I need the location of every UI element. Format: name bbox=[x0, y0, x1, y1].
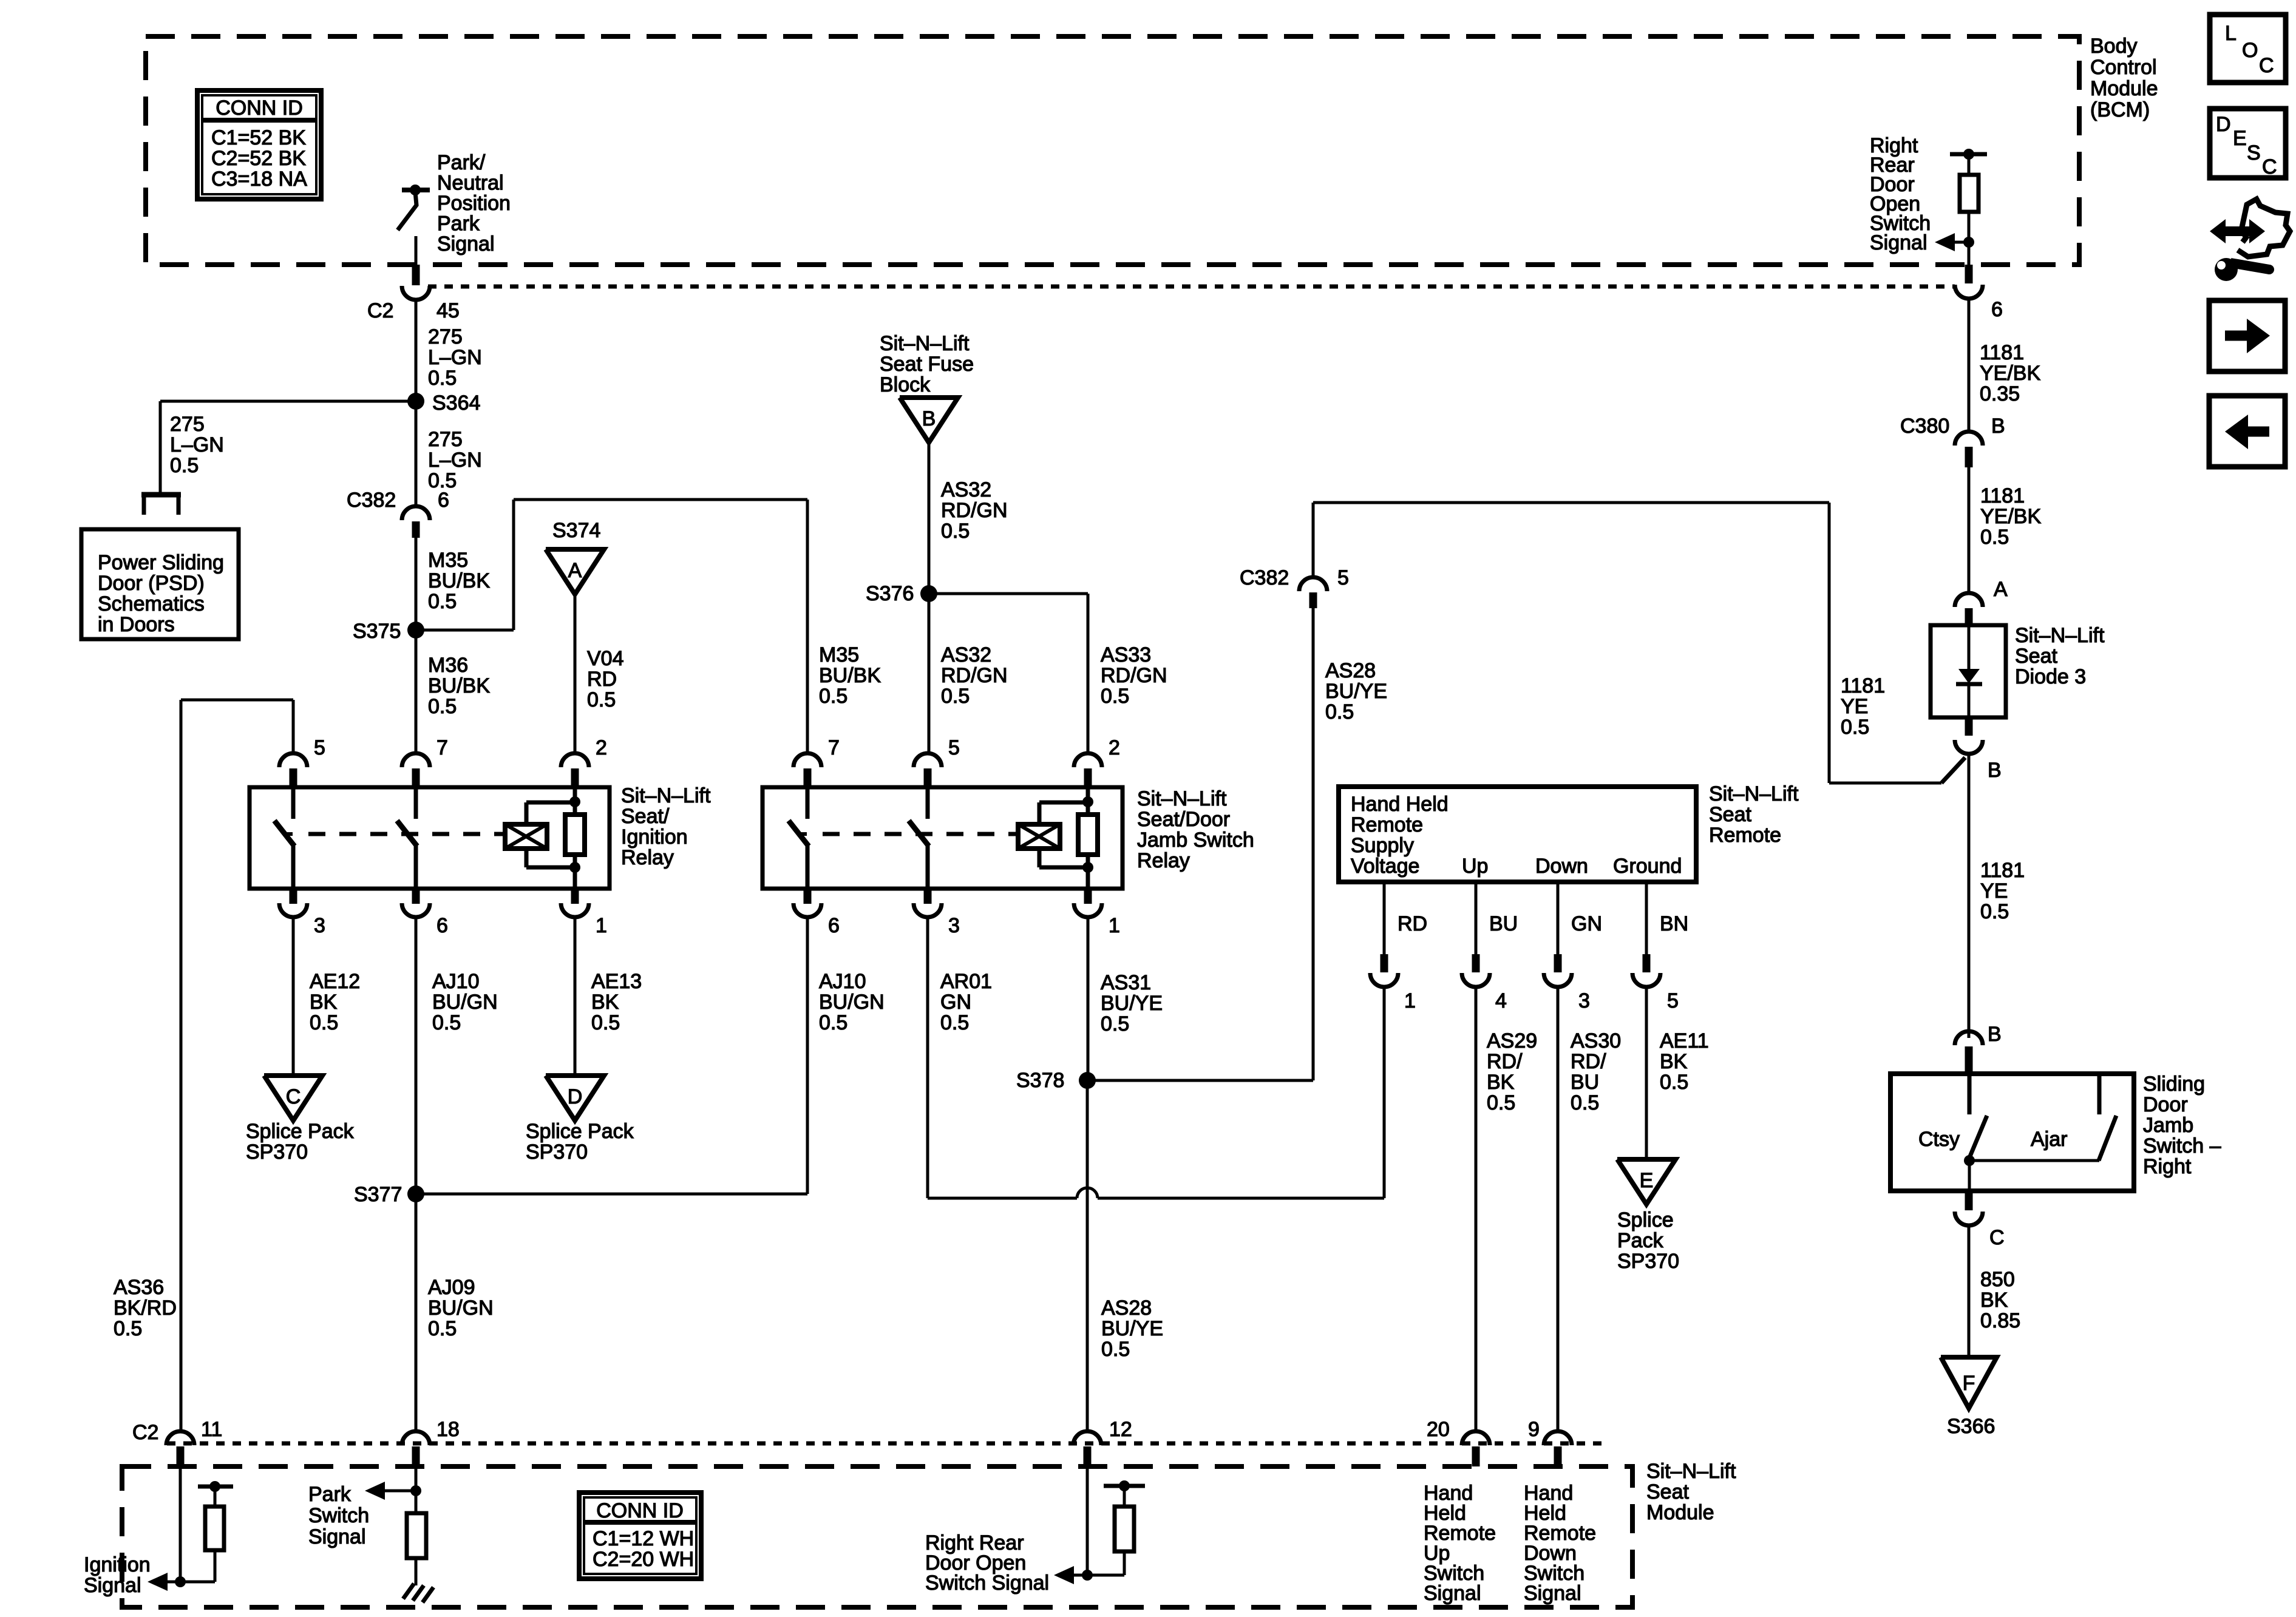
svg-text:BN: BN bbox=[1660, 912, 1688, 935]
wire 275 L-GN 0.5 (C2-45 to S364) bbox=[415, 300, 418, 401]
svg-text:Signal: Signal bbox=[1870, 231, 1927, 254]
wire - pin 11 to ignition signal bbox=[179, 1466, 182, 1582]
svg-text:0.5: 0.5 bbox=[819, 1011, 847, 1034]
connector seat module pin 20 bbox=[1427, 1418, 1490, 1466]
connector relay K1 pin 3 (bottom) bbox=[279, 889, 325, 937]
svg-text:L–GN: L–GN bbox=[170, 433, 224, 456]
svg-text:A: A bbox=[568, 559, 582, 582]
svg-text:B: B bbox=[1991, 415, 2005, 438]
svg-text:S: S bbox=[2247, 141, 2261, 164]
svg-text:Ignition: Ignition bbox=[84, 1553, 151, 1576]
svg-text:AS33: AS33 bbox=[1101, 643, 1151, 666]
svg-text:CONN ID: CONN ID bbox=[596, 1499, 684, 1522]
svg-text:M35: M35 bbox=[428, 549, 468, 572]
svg-text:2: 2 bbox=[596, 736, 607, 759]
splice S364 bbox=[407, 393, 424, 410]
svg-text:1181: 1181 bbox=[1980, 341, 2024, 364]
svg-text:Sit–N–Lift: Sit–N–Lift bbox=[1709, 782, 1799, 805]
svg-text:AS28: AS28 bbox=[1101, 1297, 1152, 1320]
svg-text:BU/BK: BU/BK bbox=[819, 664, 881, 687]
module box - Body Control Module (BCM) bbox=[146, 36, 2079, 265]
svg-text:2: 2 bbox=[1109, 736, 1120, 759]
connector BCM C2 pin 6 bbox=[1955, 285, 2003, 321]
svg-text:5: 5 bbox=[1667, 989, 1679, 1012]
svg-text:275: 275 bbox=[428, 428, 463, 451]
svg-text:Sit–N–Lift: Sit–N–Lift bbox=[1137, 787, 1227, 810]
svg-text:4: 4 bbox=[1495, 989, 1507, 1012]
wire - resistor to ground bbox=[415, 1558, 418, 1585]
svg-text:BK/RD: BK/RD bbox=[114, 1297, 177, 1320]
wire AS31 BU/YE 0.5 (K2-1 to S378) bbox=[1087, 917, 1090, 1080]
svg-text:0.5: 0.5 bbox=[1980, 900, 2009, 923]
svg-text:D: D bbox=[2216, 113, 2231, 136]
svg-text:18: 18 bbox=[436, 1418, 460, 1441]
svg-text:6: 6 bbox=[1991, 298, 2003, 321]
svg-text:BK: BK bbox=[1487, 1071, 1515, 1094]
svg-text:AS32: AS32 bbox=[941, 643, 991, 666]
svg-text:Signal: Signal bbox=[84, 1574, 141, 1597]
svg-text:Jamb Switch: Jamb Switch bbox=[1137, 829, 1254, 852]
svg-text:Sliding: Sliding bbox=[2143, 1073, 2205, 1096]
svg-text:C382: C382 bbox=[347, 489, 396, 512]
svg-text:0.5: 0.5 bbox=[1325, 700, 1354, 724]
svg-text:B: B bbox=[1988, 759, 2002, 782]
wire GN (remote lead) bbox=[1557, 882, 1560, 954]
connector relay K2 pin 2 (top) bbox=[1074, 736, 1120, 787]
wire AJ10 BU/GN 0.5 (K1-6 to S377) bbox=[415, 917, 418, 1194]
diode D3 - Sit-N-Lift Seat Diode 3 bbox=[1931, 625, 2006, 717]
relay K1 - Sit-N-Lift Seat/Ignition Relay bbox=[250, 787, 610, 889]
wire 1181 YE/BK 0.35 (pin6 to C380) bbox=[1968, 299, 1971, 432]
dotted connector face line (BCM C2) bbox=[428, 285, 1955, 289]
svg-text:C: C bbox=[2262, 155, 2277, 178]
connector seat module pin 11 bbox=[166, 1418, 222, 1466]
signal arrow - Right Rear Door Open Switch Signal (BCM) bbox=[1935, 233, 1974, 251]
svg-text:BU/YE: BU/YE bbox=[1101, 992, 1163, 1015]
splice S377 bbox=[407, 1185, 424, 1202]
connector seat module pin 9 bbox=[1528, 1418, 1572, 1466]
svg-text:RD/GN: RD/GN bbox=[941, 664, 1008, 687]
svg-text:S364: S364 bbox=[432, 392, 480, 415]
svg-text:AS30: AS30 bbox=[1571, 1029, 1621, 1053]
CONN ID table (seat module connectors) bbox=[579, 1493, 701, 1579]
svg-text:0.5: 0.5 bbox=[428, 367, 457, 390]
svg-text:Remote: Remote bbox=[1709, 824, 1781, 847]
splice S375 bbox=[407, 622, 424, 639]
svg-text:0.5: 0.5 bbox=[170, 454, 199, 477]
svg-text:Down: Down bbox=[1535, 855, 1588, 878]
svg-text:0.5: 0.5 bbox=[1101, 685, 1129, 708]
svg-text:0.5: 0.5 bbox=[114, 1317, 142, 1340]
svg-text:F: F bbox=[1963, 1372, 1975, 1395]
icon - LOC box bbox=[2210, 15, 2286, 83]
svg-text:AE11: AE11 bbox=[1660, 1029, 1709, 1053]
svg-text:D: D bbox=[568, 1085, 583, 1108]
off-page fork to PSD bbox=[141, 492, 181, 498]
svg-text:11: 11 bbox=[201, 1418, 222, 1441]
wire AE12 BK 0.5 (K1-3 to splice C) bbox=[292, 917, 295, 1076]
connector relay K2 pin 5 (top) bbox=[914, 736, 960, 787]
connector relay K1 pin 2 (top) bbox=[561, 736, 607, 787]
wire - remote pin 1 to AR01 bbox=[1383, 987, 1386, 1198]
ground splice triangle F (S366) bbox=[1941, 1357, 1997, 1408]
wire 1181 YE (C382-5 to diode B loop) bbox=[1313, 501, 1829, 504]
svg-text:20: 20 bbox=[1427, 1418, 1450, 1441]
svg-text:6: 6 bbox=[438, 489, 449, 512]
svg-text:0.5: 0.5 bbox=[941, 520, 970, 543]
connector remote pin 1 bbox=[1370, 954, 1416, 1012]
connector diode pin B bbox=[1955, 717, 2002, 782]
svg-text:Signal: Signal bbox=[1424, 1582, 1481, 1605]
svg-text:Park/: Park/ bbox=[437, 151, 486, 174]
connector remote pin 3 bbox=[1544, 954, 1590, 1012]
svg-text:Seat/Door: Seat/Door bbox=[1137, 808, 1230, 831]
svg-text:0.5: 0.5 bbox=[1571, 1091, 1599, 1114]
svg-text:275: 275 bbox=[428, 325, 463, 348]
svg-text:Body: Body bbox=[2090, 35, 2138, 58]
svg-text:in Doors: in Doors bbox=[98, 613, 175, 636]
connector relay K2 pin 7 (top) bbox=[793, 736, 840, 787]
svg-text:AS32: AS32 bbox=[941, 478, 991, 501]
svg-text:C2: C2 bbox=[367, 299, 393, 322]
wire AS33 RD/GN 0.5 (S376 branch to relay pin 2) bbox=[929, 592, 1088, 595]
svg-text:7: 7 bbox=[436, 736, 448, 759]
resistor - ignition pull-up (module) bbox=[180, 1481, 233, 1582]
svg-text:Block: Block bbox=[880, 373, 931, 396]
svg-text:Diode 3: Diode 3 bbox=[2015, 665, 2086, 688]
svg-text:AS29: AS29 bbox=[1487, 1029, 1537, 1053]
svg-text:C: C bbox=[286, 1085, 301, 1108]
svg-text:E: E bbox=[1640, 1169, 1654, 1192]
svg-text:0.5: 0.5 bbox=[1660, 1071, 1688, 1094]
svg-text:C1=52 BK: C1=52 BK bbox=[211, 126, 306, 149]
svg-text:C2: C2 bbox=[132, 1421, 158, 1444]
switch - Sliding Door Jamb Switch Right bbox=[1890, 1074, 2134, 1191]
connector C382 pin 6 bbox=[347, 489, 449, 538]
wire hop (AR01 over AS28) bbox=[1077, 1188, 1098, 1198]
svg-text:0.5: 0.5 bbox=[1841, 716, 1869, 739]
svg-text:RD/: RD/ bbox=[1571, 1050, 1606, 1073]
wire - pin 12 to right rear door open signal bbox=[1086, 1466, 1089, 1575]
svg-text:BU: BU bbox=[1489, 912, 1518, 935]
svg-text:0.5: 0.5 bbox=[432, 1011, 461, 1034]
svg-text:0.5: 0.5 bbox=[1101, 1338, 1130, 1361]
svg-text:0.5: 0.5 bbox=[819, 685, 847, 708]
box - Sit-N-Lift Seat Remote (hand held) bbox=[1339, 787, 1696, 882]
ground (module) bbox=[403, 1584, 433, 1602]
connector relay K1 pin 6 (bottom) bbox=[402, 889, 448, 937]
connector remote pin 5 bbox=[1632, 954, 1679, 1012]
connector diode pin A bbox=[1955, 578, 2008, 625]
svg-text:V04: V04 bbox=[587, 647, 624, 670]
resistor - right rear door open pull-up (module) bbox=[1087, 1480, 1145, 1575]
wire M35 BU/BK (S375 branch to jamb relay pin 7) bbox=[416, 629, 514, 632]
connector C2 pin 45 bbox=[367, 286, 460, 322]
svg-text:1181: 1181 bbox=[1980, 859, 2025, 882]
svg-text:S377: S377 bbox=[354, 1183, 402, 1206]
svg-text:Module: Module bbox=[1646, 1501, 1714, 1524]
svg-text:850: 850 bbox=[1980, 1268, 2015, 1291]
svg-text:3: 3 bbox=[948, 914, 960, 937]
svg-text:S366: S366 bbox=[1947, 1415, 1995, 1438]
svg-text:Relay: Relay bbox=[621, 846, 674, 869]
svg-text:Park: Park bbox=[308, 1483, 352, 1506]
svg-text:Signal: Signal bbox=[437, 232, 495, 256]
svg-text:Ctsy: Ctsy bbox=[1918, 1128, 1960, 1151]
icon - hand/wrench (service) bbox=[2210, 199, 2290, 281]
svg-text:Sit–N–Lift: Sit–N–Lift bbox=[1646, 1460, 1736, 1483]
svg-text:L: L bbox=[2225, 22, 2237, 45]
connector relay K2 pin 3 (bottom) bbox=[914, 889, 960, 937]
svg-text:E: E bbox=[2233, 127, 2247, 150]
svg-text:Relay: Relay bbox=[1137, 849, 1190, 872]
svg-text:Switch: Switch bbox=[308, 1504, 369, 1527]
resistor - park switch signal (module) bbox=[407, 1513, 426, 1558]
svg-text:M36: M36 bbox=[428, 654, 468, 677]
svg-text:BU: BU bbox=[1571, 1071, 1599, 1094]
icon - forward arrow box bbox=[2209, 300, 2285, 371]
wire BU (remote lead) bbox=[1475, 882, 1478, 954]
svg-text:YE: YE bbox=[1841, 695, 1868, 718]
svg-text:RD: RD bbox=[1398, 912, 1427, 935]
svg-text:6: 6 bbox=[436, 914, 448, 937]
svg-text:Switch Signal: Switch Signal bbox=[925, 1571, 1049, 1595]
svg-text:Sit–N–Lift: Sit–N–Lift bbox=[2015, 624, 2105, 647]
svg-text:CONN ID: CONN ID bbox=[216, 97, 303, 120]
svg-text:Control: Control bbox=[2090, 56, 2157, 79]
svg-text:Seat Fuse: Seat Fuse bbox=[880, 353, 974, 376]
icon - back arrow box bbox=[2209, 396, 2285, 467]
svg-text:Position: Position bbox=[437, 192, 511, 215]
svg-text:1181: 1181 bbox=[1980, 484, 2025, 507]
svg-text:0.5: 0.5 bbox=[1487, 1091, 1515, 1114]
svg-text:BU/BK: BU/BK bbox=[428, 674, 490, 697]
svg-text:Splice Pack: Splice Pack bbox=[526, 1120, 634, 1143]
svg-text:BK: BK bbox=[310, 991, 338, 1014]
svg-text:BU/GN: BU/GN bbox=[819, 991, 885, 1014]
svg-text:Sit–N–Lift: Sit–N–Lift bbox=[880, 332, 970, 355]
wire AS32 RD/GN 0.5 (S376 to relay pin 5) bbox=[928, 594, 931, 753]
wire AS28 BU/YE 0.5 (S378 to C1-12) bbox=[1086, 1080, 1089, 1431]
wire V04 RD 0.5 (A to relay pin 2) bbox=[574, 593, 577, 753]
svg-text:AJ10: AJ10 bbox=[432, 970, 480, 993]
connector relay K2 pin 6 (bottom) bbox=[793, 889, 840, 937]
svg-text:BK: BK bbox=[1980, 1289, 2008, 1312]
svg-text:L–GN: L–GN bbox=[428, 449, 482, 472]
wire 1181 YE 0.5 (diode B to jamb switch B) bbox=[1968, 754, 1971, 1038]
svg-text:Seat: Seat bbox=[2015, 645, 2057, 668]
svg-text:12: 12 bbox=[1109, 1418, 1132, 1441]
wire - BCM pin 6 exit bbox=[1968, 242, 1971, 283]
svg-text:5: 5 bbox=[948, 736, 960, 759]
svg-text:Power Sliding: Power Sliding bbox=[98, 551, 224, 574]
svg-text:0.5: 0.5 bbox=[587, 688, 616, 711]
svg-text:RD/GN: RD/GN bbox=[941, 499, 1008, 522]
svg-text:Seat/: Seat/ bbox=[621, 805, 670, 828]
svg-text:S374: S374 bbox=[552, 519, 600, 542]
svg-text:1: 1 bbox=[596, 914, 607, 937]
svg-text:Remote: Remote bbox=[1351, 813, 1423, 836]
svg-text:3: 3 bbox=[314, 914, 325, 937]
wire M36 BU/BK 0.5 (S375 to relay pin 7) bbox=[415, 630, 418, 753]
svg-text:Ajar: Ajar bbox=[2031, 1128, 2067, 1151]
svg-text:1: 1 bbox=[1109, 914, 1120, 937]
svg-text:Signal: Signal bbox=[308, 1525, 366, 1548]
wire - S364 branch to PSD schematics bbox=[160, 400, 416, 403]
svg-text:C3=18 NA: C3=18 NA bbox=[211, 168, 307, 191]
signal arrow - Park Switch Signal bbox=[365, 1482, 421, 1500]
svg-text:S375: S375 bbox=[353, 620, 401, 643]
svg-text:YE/BK: YE/BK bbox=[1980, 362, 2040, 385]
svg-text:7: 7 bbox=[828, 736, 840, 759]
relay K2 - Sit-N-Lift Seat/Door Jamb Switch Relay bbox=[763, 787, 1123, 889]
svg-text:Right: Right bbox=[2143, 1155, 2192, 1178]
svg-text:AS31: AS31 bbox=[1101, 971, 1151, 994]
svg-text:AE13: AE13 bbox=[591, 970, 642, 993]
svg-text:0.35: 0.35 bbox=[1980, 382, 2020, 405]
wire AJ09 BU/GN 0.5 (S377 to C1-18) bbox=[415, 1194, 418, 1431]
connector relay K1 pin 5 (top) bbox=[279, 736, 325, 787]
svg-text:0.5: 0.5 bbox=[940, 1011, 969, 1034]
svg-text:Neutral: Neutral bbox=[437, 172, 504, 195]
svg-text:1181: 1181 bbox=[1841, 674, 1885, 697]
svg-text:BU/GN: BU/GN bbox=[428, 1297, 494, 1320]
dotted connector face line (seat module) bbox=[167, 1442, 1603, 1446]
box - Power Sliding Door (PSD) Schematics in Doors bbox=[81, 529, 239, 639]
svg-text:0.5: 0.5 bbox=[428, 590, 457, 613]
svg-text:275: 275 bbox=[170, 413, 205, 436]
wire BN (remote lead) bbox=[1645, 882, 1648, 954]
svg-text:C1=12 WH: C1=12 WH bbox=[593, 1527, 694, 1550]
svg-text:S378: S378 bbox=[1016, 1069, 1064, 1092]
svg-text:AJ09: AJ09 bbox=[428, 1276, 475, 1299]
svg-text:BU/YE: BU/YE bbox=[1101, 1317, 1163, 1340]
svg-text:RD: RD bbox=[587, 668, 617, 691]
switch - Park/Neutral Position Park Signal (in BCM) bbox=[398, 185, 430, 267]
wire 850 BK 0.85 (jamb C to S366) bbox=[1968, 1225, 1971, 1357]
splice pack triangle E bbox=[1617, 1159, 1676, 1204]
svg-text:Ignition: Ignition bbox=[621, 825, 688, 849]
svg-text:A: A bbox=[1994, 578, 2008, 601]
svg-text:B: B bbox=[922, 407, 936, 430]
resistor - right rear door open switch pull-up (BCM) bbox=[1950, 149, 1987, 242]
svg-text:0.5: 0.5 bbox=[428, 695, 457, 718]
svg-text:RD/GN: RD/GN bbox=[1101, 664, 1167, 687]
svg-text:Up: Up bbox=[1462, 855, 1488, 878]
wire - park signal through BCM edge bbox=[412, 265, 420, 285]
svg-text:Module: Module bbox=[2090, 77, 2158, 100]
svg-text:Pack: Pack bbox=[1617, 1229, 1664, 1252]
svg-text:Schematics: Schematics bbox=[98, 592, 205, 615]
wire 275 L-GN 0.5 (S364 to C382) bbox=[415, 401, 418, 506]
svg-text:Park: Park bbox=[437, 212, 480, 236]
svg-text:SP370: SP370 bbox=[526, 1141, 588, 1164]
svg-text:C: C bbox=[2259, 54, 2274, 77]
signal arrow - Right Rear Door Open Switch Signal bbox=[1054, 1566, 1093, 1584]
svg-text:C2=52 BK: C2=52 BK bbox=[211, 147, 306, 170]
wire AS29 RD/BK 0.5 (remote 4 to C1-20) bbox=[1475, 987, 1478, 1431]
splice pack triangle D bbox=[546, 1076, 604, 1120]
svg-text:0.5: 0.5 bbox=[591, 1011, 620, 1034]
svg-text:C380: C380 bbox=[1900, 415, 1949, 438]
connector jamb switch pin B bbox=[1955, 1023, 2002, 1074]
svg-text:Sit–N–Lift: Sit–N–Lift bbox=[621, 784, 711, 807]
wire - S378 branch to C382 pin 5 bbox=[1087, 1079, 1313, 1082]
svg-text:0.5: 0.5 bbox=[941, 685, 970, 708]
svg-text:YE/BK: YE/BK bbox=[1980, 505, 2041, 528]
svg-text:BU/BK: BU/BK bbox=[428, 569, 490, 592]
svg-text:Splice: Splice bbox=[1617, 1209, 1674, 1232]
connector C382 pin 5 bbox=[1240, 503, 1349, 608]
svg-text:(BCM): (BCM) bbox=[2090, 98, 2150, 121]
svg-text:45: 45 bbox=[436, 299, 460, 322]
svg-text:C382: C382 bbox=[1240, 566, 1289, 589]
connector seat module pin 12 bbox=[1073, 1418, 1132, 1466]
svg-text:5: 5 bbox=[314, 736, 325, 759]
connector jamb switch pin C bbox=[1955, 1191, 2005, 1249]
svg-text:9: 9 bbox=[1528, 1418, 1540, 1441]
wire RD (remote lead) bbox=[1383, 882, 1386, 954]
svg-text:6: 6 bbox=[828, 914, 840, 937]
wire AS36 BK/RD 0.5 (ignition feed to K1 pin 5) bbox=[180, 700, 183, 1431]
svg-text:GN: GN bbox=[1571, 912, 1602, 935]
svg-text:C: C bbox=[1989, 1226, 2005, 1249]
splice pack triangle C bbox=[264, 1076, 322, 1120]
svg-text:3: 3 bbox=[1578, 989, 1590, 1012]
splice pack triangle A (S374) bbox=[546, 549, 604, 594]
svg-text:0.85: 0.85 bbox=[1980, 1309, 2020, 1332]
connector relay K1 pin 1 (bottom) bbox=[561, 889, 607, 937]
wire AS30 RD/BU 0.5 (remote 3 to C1-9) bbox=[1557, 987, 1560, 1431]
svg-text:AJ10: AJ10 bbox=[819, 970, 866, 993]
module box - Sit-N-Lift Seat Module bbox=[122, 1466, 1632, 1607]
wire M35 BU/BK 0.5 (C382 to S375) bbox=[415, 538, 418, 630]
svg-text:1: 1 bbox=[1404, 989, 1416, 1012]
svg-text:Hand Held: Hand Held bbox=[1351, 793, 1449, 816]
svg-text:0.5: 0.5 bbox=[1101, 1012, 1129, 1036]
svg-text:0.5: 0.5 bbox=[428, 1317, 457, 1340]
svg-text:SP370: SP370 bbox=[1617, 1250, 1679, 1273]
wire - pin 18 to park switch resistor bbox=[415, 1466, 418, 1513]
svg-text:Voltage: Voltage bbox=[1351, 855, 1419, 878]
svg-text:Supply: Supply bbox=[1351, 834, 1414, 857]
svg-text:Signal: Signal bbox=[1524, 1582, 1581, 1605]
wire AE13 BK 0.5 (K1-1 to splice D) bbox=[574, 917, 577, 1076]
svg-text:BK: BK bbox=[591, 991, 619, 1014]
wire 1181 YE/BK 0.5 (C380 to diode A) bbox=[1968, 467, 1971, 594]
svg-text:0.5: 0.5 bbox=[310, 1011, 338, 1034]
splice S378 bbox=[1079, 1072, 1096, 1089]
svg-text:BU/GN: BU/GN bbox=[432, 991, 498, 1014]
wire - S377 branch to K2 pin 6 bbox=[416, 1193, 807, 1196]
signal arrow - Ignition Signal bbox=[148, 1573, 186, 1591]
svg-text:GN: GN bbox=[940, 991, 971, 1014]
svg-text:RD/: RD/ bbox=[1487, 1050, 1523, 1073]
connector relay K1 pin 7 (top) bbox=[402, 736, 448, 787]
svg-text:O: O bbox=[2242, 39, 2258, 62]
wire AS32 RD/GN 0.5 (fuse to S376) bbox=[928, 441, 931, 594]
svg-text:SP370: SP370 bbox=[246, 1141, 308, 1164]
svg-text:Switch –: Switch – bbox=[2143, 1134, 2221, 1158]
svg-text:L–GN: L–GN bbox=[428, 346, 482, 369]
connector C380 pin B bbox=[1900, 415, 2005, 467]
svg-text:Seat: Seat bbox=[1709, 803, 1751, 826]
svg-text:0.5: 0.5 bbox=[1980, 526, 2009, 549]
svg-text:AS36: AS36 bbox=[114, 1276, 164, 1299]
CONN ID table (BCM connectors) bbox=[197, 90, 321, 199]
svg-text:AE12: AE12 bbox=[310, 970, 360, 993]
svg-text:5: 5 bbox=[1337, 566, 1349, 589]
